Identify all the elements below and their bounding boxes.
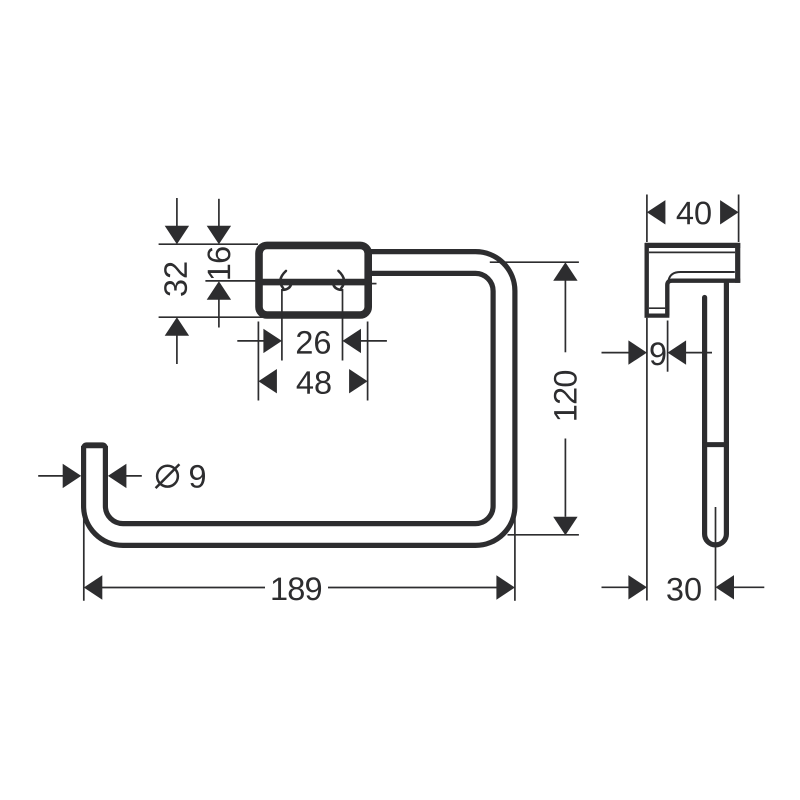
arm bottom edge bbox=[667, 281, 740, 316]
dimension 26 bbox=[281, 289, 283, 361]
arm top edge bbox=[669, 272, 735, 280]
cover seam bbox=[649, 251, 735, 253]
cover top edge bbox=[645, 243, 740, 248]
dimension 120 bbox=[490, 261, 579, 263]
dimension 30 bbox=[715, 507, 717, 601]
wall plate left edge bbox=[645, 243, 649, 318]
dimension 40 bbox=[646, 195, 648, 243]
seam tail bbox=[368, 283, 377, 285]
dimension 32 bbox=[159, 243, 258, 245]
wall plate foot seam bbox=[649, 307, 665, 309]
dimension 9 side bbox=[646, 318, 648, 601]
dimension diameter 9 bbox=[38, 475, 64, 477]
tube joint crossbar bbox=[702, 442, 729, 447]
diameter symbol bbox=[157, 466, 178, 487]
screw mark left bbox=[280, 271, 291, 290]
wall plate bottom bbox=[645, 314, 670, 318]
side view bracket bbox=[645, 243, 741, 545]
ring tube outer bbox=[95, 263, 505, 535]
front view towel ring bbox=[81, 263, 504, 535]
dimension 48 bbox=[257, 322, 259, 401]
ring hook cap bbox=[81, 442, 108, 456]
cover right edge bbox=[735, 243, 740, 283]
tube side profile bbox=[705, 283, 727, 545]
screw mark right bbox=[333, 271, 344, 290]
wall plate block bbox=[259, 245, 368, 315]
dimension 189 bbox=[83, 505, 85, 601]
dimension 16 bbox=[205, 280, 258, 282]
plate seam line bbox=[262, 279, 369, 286]
ring tube bore bbox=[95, 263, 505, 535]
